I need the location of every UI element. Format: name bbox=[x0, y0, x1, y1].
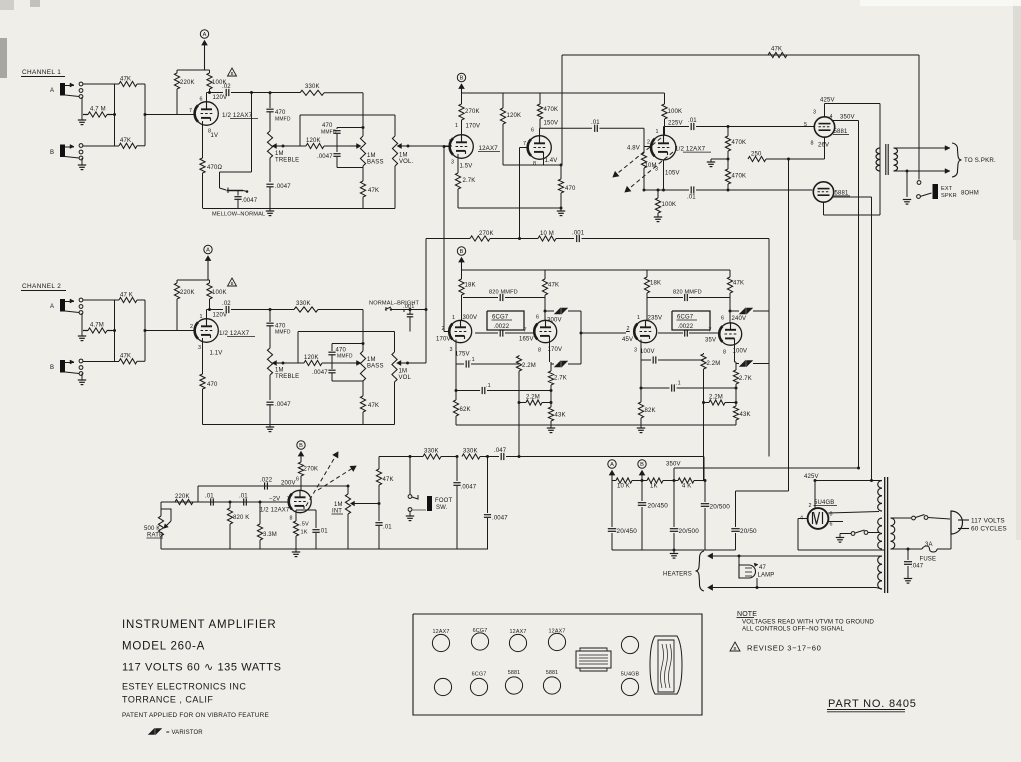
svg-text:.01: .01 bbox=[591, 120, 600, 126]
svg-text:B: B bbox=[734, 646, 737, 651]
fuse 3A bbox=[920, 542, 952, 563]
ground ch2 rail bbox=[266, 425, 274, 432]
wire input mix vertical ch1 bbox=[113, 84, 147, 146]
capacitor .02 V7 cathode bbox=[653, 356, 703, 363]
capacitor .01 vibrato out bbox=[375, 504, 392, 550]
svg-text:EXT: EXT bbox=[941, 186, 953, 192]
chart tube 6CG7 b bbox=[470, 672, 487, 696]
varistor pair upper right bbox=[729, 308, 770, 314]
resistor 270K coupling bbox=[470, 231, 494, 241]
svg-text:.01: .01 bbox=[239, 494, 248, 500]
svg-text:.0047: .0047 bbox=[461, 485, 477, 491]
resistor 47K jack A ch2 bbox=[83, 293, 145, 303]
svg-text:MODEL 260-A: MODEL 260-A bbox=[122, 641, 205, 653]
jack B channel 1 bbox=[50, 144, 83, 160]
svg-text:165V: 165V bbox=[519, 337, 534, 343]
wire varistor vertical left bbox=[580, 311, 582, 364]
svg-text:B: B bbox=[460, 249, 464, 255]
svg-text:HEATERS: HEATERS bbox=[663, 572, 692, 578]
svg-text:175V: 175V bbox=[455, 352, 470, 358]
capacitor .02 ch1 coupling bbox=[222, 84, 252, 96]
wire grid line ch2 bbox=[145, 330, 195, 332]
svg-text:220K: 220K bbox=[180, 290, 195, 296]
dashed vibrato arrow into V4 upper bbox=[613, 138, 661, 177]
label TORRANCE CALIF bbox=[122, 695, 213, 705]
capacitor 20/450 B node bbox=[638, 479, 668, 550]
svg-text:5881: 5881 bbox=[546, 670, 559, 676]
svg-text:62K: 62K bbox=[460, 407, 471, 413]
svg-text:6: 6 bbox=[296, 477, 299, 483]
label 1/2 12AX7 V4 bbox=[675, 146, 711, 153]
wire .1 line right bbox=[640, 360, 642, 388]
svg-text:ALL CONTROLS OFF−NO SIGNAL: ALL CONTROLS OFF−NO SIGNAL bbox=[742, 626, 845, 633]
resistor 330K ch1 bbox=[300, 84, 363, 95]
tube V12 5U4GB rectifier bbox=[800, 503, 833, 529]
svg-text:MMFD: MMFD bbox=[321, 130, 337, 136]
resistor 47K bass ch2 bbox=[360, 396, 379, 425]
svg-text:425V: 425V bbox=[804, 474, 819, 480]
capacitor .001 coupling bbox=[572, 231, 769, 243]
resistor 47K bass ch1 bbox=[360, 181, 379, 209]
dashed vibrato arrow upper bbox=[306, 452, 338, 506]
wire supply line to A node bbox=[703, 457, 705, 481]
ground ext speaker bbox=[903, 200, 911, 205]
wire mellow branch bbox=[220, 93, 252, 189]
label 425V ps bbox=[804, 474, 819, 480]
wire screen line 350V vertical joint bbox=[857, 467, 860, 470]
wire heater upper with arrow bbox=[708, 553, 876, 558]
resistor 62K bbox=[453, 389, 470, 425]
wire B+ bus stage2 bbox=[462, 92, 665, 94]
wire V2 cathode to ground bus bbox=[458, 207, 561, 209]
ground 470K midpoint bbox=[707, 158, 730, 167]
svg-text:1K: 1K bbox=[301, 530, 308, 536]
svg-text:2: 2 bbox=[449, 140, 452, 146]
wire bias link bbox=[736, 490, 789, 492]
jack FOOT SW bbox=[427, 496, 452, 511]
svg-text:270K: 270K bbox=[465, 109, 480, 115]
svg-text:170V: 170V bbox=[436, 337, 451, 343]
label 170V V2 bbox=[455, 123, 480, 130]
label 117 VOLTS 60 CYCLES bbox=[971, 518, 1007, 533]
ground below jack B ch2 bbox=[78, 374, 86, 385]
svg-text:5U4GB: 5U4GB bbox=[621, 672, 640, 678]
svg-text:820 K: 820 K bbox=[233, 515, 249, 521]
resistor 270K vibrato plate bbox=[298, 462, 318, 490]
svg-text:117 VOLTS: 117 VOLTS bbox=[971, 518, 1005, 525]
svg-text:20/450: 20/450 bbox=[648, 503, 669, 510]
resistor 470K V3 plate bbox=[531, 93, 558, 134]
svg-text:3: 3 bbox=[813, 110, 816, 116]
potentiometer 1M VOL ch2 bbox=[392, 332, 412, 425]
capacitor .1 V5 cathode bbox=[466, 357, 519, 368]
svg-text:3: 3 bbox=[634, 348, 637, 354]
capacitor .01 drive lower bbox=[687, 186, 813, 200]
ground 100K return bbox=[654, 217, 662, 222]
switch power on upper bbox=[912, 515, 950, 520]
svg-text:.0022: .0022 bbox=[678, 324, 694, 330]
svg-text:BASS: BASS bbox=[367, 160, 384, 166]
ground V2 V3 cathodes bbox=[557, 207, 565, 216]
resistor 10K ps bbox=[612, 478, 647, 490]
wire primary top lead bbox=[891, 517, 912, 519]
switch MELLOW-NORMAL bbox=[220, 188, 249, 194]
svg-text:7: 7 bbox=[189, 108, 192, 114]
varistor pair lower left bbox=[551, 361, 581, 367]
svg-text:5881: 5881 bbox=[508, 670, 521, 676]
wire vibrato output bbox=[358, 502, 381, 505]
svg-text:1.4V: 1.4V bbox=[545, 158, 558, 164]
svg-text:.0047: .0047 bbox=[312, 370, 328, 376]
svg-text:330K: 330K bbox=[305, 84, 320, 90]
svg-text:60 CYCLES: 60 CYCLES bbox=[971, 526, 1007, 533]
wire 330K line start bbox=[379, 455, 412, 458]
svg-text:1M: 1M bbox=[399, 369, 408, 375]
svg-text:INSTRUMENT AMPLIFIER: INSTRUMENT AMPLIFIER bbox=[122, 619, 276, 631]
svg-text:3: 3 bbox=[451, 160, 454, 166]
transformer T1 secondary bbox=[894, 148, 898, 171]
svg-text:6: 6 bbox=[721, 316, 724, 322]
svg-text:B: B bbox=[231, 71, 234, 76]
svg-text:1M: 1M bbox=[275, 151, 284, 157]
node A supply top bbox=[200, 30, 208, 38]
wire B+ rail ch2 first stage bbox=[177, 279, 210, 281]
svg-text:2.7K: 2.7K bbox=[463, 178, 476, 184]
label PATENT APPLIED FOR ON VIBRATO FEATURE bbox=[122, 712, 269, 719]
capacitor .0022 V5-V6 grid bbox=[473, 329, 533, 336]
wire 5881 upper cathode bbox=[790, 137, 825, 159]
svg-text:120K: 120K bbox=[306, 138, 321, 144]
resistor 47K jack B bbox=[83, 138, 145, 148]
label 425V plate bbox=[820, 98, 835, 104]
svg-text:2: 2 bbox=[190, 324, 193, 330]
svg-text:330K: 330K bbox=[463, 449, 478, 455]
ground ch1 rail bbox=[266, 209, 274, 216]
svg-text:240V: 240V bbox=[732, 316, 747, 322]
svg-text:8: 8 bbox=[811, 141, 814, 147]
svg-text:TORRANCE , CALIF: TORRANCE , CALIF bbox=[122, 695, 213, 705]
resistor 330K supply a bbox=[410, 449, 457, 460]
svg-text:6CG7: 6CG7 bbox=[472, 672, 487, 678]
resistor 2.7K V8 cathode bbox=[733, 362, 752, 388]
svg-text:120K: 120K bbox=[304, 355, 319, 361]
resistor 43K bbox=[548, 389, 565, 425]
chart tube 12AX7 b bbox=[509, 629, 526, 652]
svg-text:170V: 170V bbox=[466, 124, 481, 130]
svg-text:120V: 120V bbox=[213, 313, 228, 319]
svg-text:SPKR: SPKR bbox=[941, 193, 957, 199]
varistor pair upper left bbox=[544, 308, 582, 314]
svg-text:225V: 225V bbox=[668, 121, 683, 127]
svg-text:.01: .01 bbox=[319, 529, 328, 535]
wire V5 cathode to .1 cap bbox=[456, 340, 464, 365]
svg-text:1M: 1M bbox=[399, 153, 408, 159]
svg-text:47K: 47K bbox=[120, 77, 131, 83]
capacitor 820MMFD V5 bbox=[462, 290, 546, 302]
resistor 47K vibrato out bbox=[376, 457, 393, 504]
potentiometer 1M TREBLE ch1 bbox=[267, 112, 299, 182]
resistor 120K V3 grid bbox=[500, 93, 521, 165]
resistor 2.7K V2 cathode bbox=[455, 154, 475, 208]
label REVISED 3-17-60 bbox=[747, 644, 821, 653]
capacitor .1 right lower bbox=[641, 381, 736, 392]
scan smudge right edge bbox=[1013, 0, 1021, 540]
label 1/2 12AX7 vibrato bbox=[260, 508, 290, 514]
svg-text:MMFD: MMFD bbox=[337, 354, 353, 360]
wire V4 lower plate to line bbox=[643, 156, 690, 192]
potentiometer 500K RATE bbox=[144, 502, 171, 549]
svg-text:1M: 1M bbox=[367, 153, 376, 159]
resistor 4.7M channel 2 bbox=[83, 323, 112, 334]
capacitor .047 supply bbox=[486, 448, 704, 460]
svg-text:2.2M: 2.2M bbox=[707, 361, 721, 367]
svg-text:PART NO. 8405: PART NO. 8405 bbox=[828, 698, 917, 710]
lamp branch lower bbox=[756, 578, 759, 589]
wire feedback down from speaker line bbox=[561, 55, 563, 165]
wire rectifier pin4 left bbox=[798, 519, 884, 551]
tube V1B 1/2 12AX7 ch2 bbox=[190, 313, 227, 357]
ground below jack A ch2 bbox=[78, 313, 86, 341]
svg-text:82K: 82K bbox=[645, 408, 656, 414]
label CHANNEL 1 bbox=[21, 69, 65, 77]
tube V7 6CG7 third bbox=[622, 315, 662, 355]
jack A channel 1 bbox=[50, 82, 83, 98]
brace heaters bbox=[696, 551, 705, 591]
capacitor 20/450 A node bbox=[608, 481, 637, 551]
svg-text:.02: .02 bbox=[222, 84, 231, 90]
capacitor .02 ch2 coupling bbox=[222, 301, 294, 313]
svg-text:1/2 12AX7: 1/2 12AX7 bbox=[222, 112, 253, 119]
wire B arrow ps bbox=[639, 471, 644, 481]
svg-text:SW.: SW. bbox=[436, 505, 448, 511]
svg-text:ESTEY ELECTRONICS INC: ESTEY ELECTRONICS INC bbox=[122, 682, 246, 692]
svg-text:470: 470 bbox=[275, 110, 286, 116]
capacitor .022 vibrato bbox=[260, 478, 273, 490]
label NOTE bbox=[737, 611, 758, 618]
svg-text:1/2 12AX7: 1/2 12AX7 bbox=[219, 330, 250, 337]
svg-text:.022: .022 bbox=[260, 478, 273, 484]
wire bass cap links ch2 bbox=[332, 310, 365, 382]
resistor 2.2M lower bbox=[518, 395, 553, 406]
label PART NO 8405 bbox=[827, 698, 917, 712]
svg-text:VOLTAGES READ WITH VTVM TO GRO: VOLTAGES READ WITH VTVM TO GROUND bbox=[742, 619, 874, 626]
plug 117V bbox=[951, 511, 969, 534]
resistor 100K V4 plate bbox=[656, 93, 683, 135]
svg-text:.0047: .0047 bbox=[275, 184, 291, 190]
resistor 220K vibrato bbox=[175, 494, 193, 505]
switch FOOT SW upper bbox=[408, 457, 418, 500]
wire vibrato ground rail bbox=[161, 548, 488, 550]
tube V8 6CG7 fourth bbox=[705, 316, 747, 356]
capacitor .01 vibrato a bbox=[205, 494, 214, 506]
brace TO SPKR bbox=[952, 143, 962, 177]
svg-text:47: 47 bbox=[759, 565, 766, 571]
transformer T1 output primary bbox=[876, 148, 880, 171]
chart output transformer icon bbox=[650, 636, 682, 694]
wire V3 cathode bbox=[544, 155, 563, 167]
wire top bus tone ch2 bbox=[298, 332, 395, 364]
wire heater winding links bbox=[876, 556, 882, 589]
svg-text:47K: 47K bbox=[120, 138, 131, 144]
svg-text:.1: .1 bbox=[676, 381, 681, 387]
svg-text:FUSE: FUSE bbox=[920, 557, 937, 563]
chart tube 5881 b bbox=[543, 670, 560, 694]
resistor 220K ch1 bbox=[174, 70, 194, 115]
svg-text:1V: 1V bbox=[211, 133, 219, 139]
svg-text:1M: 1M bbox=[367, 357, 376, 363]
svg-text:18K: 18K bbox=[465, 283, 476, 289]
wire 5881 upper plate to transformer bbox=[825, 104, 881, 216]
svg-text:A: A bbox=[50, 304, 54, 310]
svg-text:8: 8 bbox=[290, 516, 293, 522]
svg-text:20/50: 20/50 bbox=[740, 528, 757, 535]
svg-text:470: 470 bbox=[322, 123, 333, 129]
svg-text:3A: 3A bbox=[925, 542, 933, 548]
label EXT SPKR 8OHM bbox=[941, 186, 979, 199]
varistor legend symbol bbox=[149, 729, 204, 737]
chart tube blank bbox=[621, 636, 638, 653]
svg-text:8OHM: 8OHM bbox=[961, 191, 979, 197]
label TO SPKR bbox=[964, 157, 996, 164]
svg-text:12AX7: 12AX7 bbox=[479, 145, 499, 152]
label CHANNEL 2 bbox=[21, 283, 66, 291]
chart tube 12AX7 c bbox=[548, 629, 565, 651]
scan smudge top-left bbox=[0, 0, 40, 78]
wire V3 grid from 270K line bbox=[518, 148, 528, 241]
svg-text:470: 470 bbox=[207, 382, 218, 388]
svg-text:43K: 43K bbox=[740, 412, 751, 418]
wire plug bottom bbox=[950, 533, 952, 549]
wire V8 cathode bbox=[735, 342, 737, 371]
ground standby bbox=[836, 534, 844, 543]
svg-text:2: 2 bbox=[647, 140, 650, 146]
svg-text:6: 6 bbox=[830, 522, 833, 528]
potentiometer 1M TREBLE ch2 bbox=[267, 326, 299, 400]
capacitor .1 lower bbox=[456, 383, 551, 394]
resistor 47K feedback bbox=[768, 47, 787, 58]
potentiometer 1M INT bbox=[332, 485, 359, 550]
svg-text:.02: .02 bbox=[222, 301, 231, 307]
transformer T2 rectifier filament winding bbox=[878, 518, 882, 549]
capacitor .0047 supply b bbox=[484, 457, 508, 550]
svg-text:BASS: BASS bbox=[367, 364, 384, 370]
capacitor .01 vibrato b bbox=[239, 494, 248, 506]
svg-text:1M: 1M bbox=[275, 368, 284, 374]
wire plate node ch2 bbox=[207, 308, 224, 319]
svg-text:.1: .1 bbox=[470, 357, 475, 363]
svg-text:47K: 47K bbox=[368, 403, 379, 409]
wire .1 line lower bbox=[455, 364, 457, 391]
wire A feed arrow ch2 bbox=[205, 256, 210, 280]
label INSTRUMENT AMPLIFIER bbox=[122, 619, 276, 631]
svg-text:TREBLE: TREBLE bbox=[275, 374, 299, 380]
switch standby bbox=[840, 530, 879, 535]
wire B feed arrow stage2 bbox=[459, 84, 464, 93]
resistor 47K V8 plate bbox=[727, 270, 744, 323]
wire bright to vol node bbox=[396, 308, 428, 311]
tube V10 5881 lower bbox=[813, 182, 833, 202]
svg-text:A: A bbox=[50, 88, 54, 94]
wire line mid bbox=[490, 238, 538, 240]
svg-text:18K: 18K bbox=[650, 281, 661, 287]
label 5U4GB bbox=[814, 500, 838, 506]
wire heater lower with arrow bbox=[708, 585, 876, 590]
switch ext speaker upper contact bbox=[917, 181, 921, 185]
label ESTEY ELECTRONICS INC bbox=[122, 682, 246, 692]
svg-text:4.7M: 4.7M bbox=[90, 323, 104, 329]
ground below jack B bbox=[78, 158, 86, 170]
svg-text:470K: 470K bbox=[544, 107, 559, 113]
svg-text:120V: 120V bbox=[213, 95, 228, 101]
capacitor 20/500 350V bbox=[670, 481, 699, 551]
wire 5881 upper screen 350V bbox=[830, 114, 859, 121]
warning triangle revised bbox=[730, 642, 740, 651]
svg-text:1M: 1M bbox=[334, 502, 343, 508]
svg-text:.01: .01 bbox=[205, 494, 214, 500]
label MODEL 260-A bbox=[122, 641, 205, 653]
resistor 270K V2 plate bbox=[459, 93, 480, 136]
capacitor .001 bright ch2 bbox=[396, 304, 415, 332]
svg-text:1K: 1K bbox=[650, 484, 658, 490]
wire 5881 lower plate bbox=[833, 197, 873, 482]
potentiometer 1M VOL ch1 bbox=[392, 115, 413, 209]
svg-text:TREBLE: TREBLE bbox=[275, 158, 299, 164]
resistor 2.2M coupling mid bbox=[516, 333, 536, 457]
wire 350V riser bbox=[673, 468, 859, 482]
transformer T2 power core bbox=[885, 477, 888, 593]
wire driver ground bus bbox=[456, 424, 736, 426]
svg-text:8: 8 bbox=[533, 161, 536, 167]
wire ps ground rail bbox=[612, 549, 736, 551]
svg-text:105V: 105V bbox=[665, 171, 680, 177]
chart tube 5U4GB bbox=[621, 672, 640, 696]
label 5881 upper bbox=[833, 129, 849, 135]
svg-text:B: B bbox=[299, 443, 303, 449]
dashed vibrato arrow lower bbox=[318, 466, 356, 490]
wire feedback vertical right bbox=[918, 55, 920, 180]
svg-text:A: A bbox=[206, 248, 210, 254]
svg-text:.0047: .0047 bbox=[317, 154, 333, 160]
wire V6 cathode bbox=[550, 339, 552, 362]
resistor 2.7K V6 cathode bbox=[548, 362, 567, 391]
svg-text:45V: 45V bbox=[622, 337, 633, 343]
wire input mix vertical ch2 bbox=[113, 300, 147, 361]
wire V3 plate node bbox=[540, 128, 593, 136]
chart tube 12AX7 a bbox=[432, 629, 449, 652]
resistor 3.3M vibrato bbox=[257, 501, 277, 550]
tube V6 6CG7 second bbox=[519, 315, 562, 354]
svg-text:A: A bbox=[203, 32, 207, 38]
resistor 2.2M right mid bbox=[701, 333, 721, 481]
svg-text:350V: 350V bbox=[666, 462, 681, 468]
capacitor 470MMFD bass ch1 bbox=[321, 123, 341, 143]
svg-text:B: B bbox=[231, 281, 234, 286]
capacitor .01 drive upper bbox=[688, 118, 815, 130]
wire V4 plate up bbox=[663, 135, 665, 136]
svg-text:1: 1 bbox=[637, 315, 640, 321]
tube V4 1/2 12AX7 vibrato modulator bbox=[627, 135, 680, 176]
capacitor .0047 supply a bbox=[453, 457, 476, 550]
wire 425V rail bbox=[814, 479, 883, 482]
wire screen dropper vertical bbox=[858, 121, 860, 469]
chart power transformer icon bbox=[576, 648, 611, 671]
ground FOOT SW bbox=[406, 512, 414, 521]
wire top bus tone ch1 bbox=[300, 115, 395, 146]
wire ch2 ground rail bbox=[203, 424, 395, 426]
svg-text:20/450: 20/450 bbox=[617, 528, 638, 535]
svg-text:1/2 12AX7: 1/2 12AX7 bbox=[260, 508, 290, 514]
svg-text:1: 1 bbox=[200, 314, 203, 320]
